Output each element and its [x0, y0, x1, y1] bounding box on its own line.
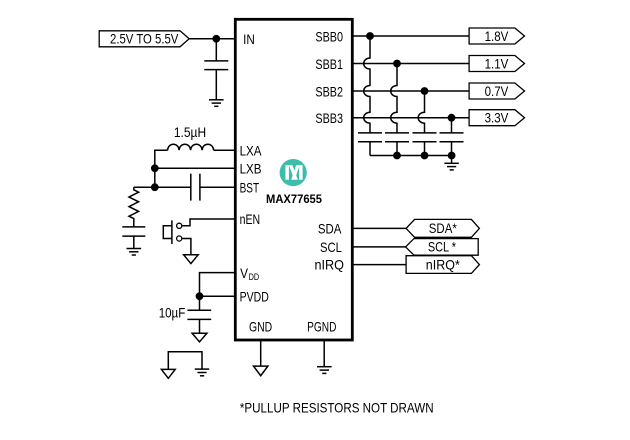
capacitor C_BST: [191, 174, 200, 201]
svg-text:SDA: SDA: [318, 220, 342, 236]
pin label SBB0: [315, 29, 343, 45]
output flag 1.1V: [469, 55, 524, 71]
pin label SBB3: [315, 110, 343, 126]
vertical wire from SBB3 node: [451, 118, 453, 133]
output flag 1.8V: [469, 28, 524, 44]
pin label IN: [243, 31, 255, 47]
output flag 0.7V: [469, 83, 524, 99]
pin label BST: [240, 179, 260, 195]
wire PGND pin to ground: [323, 340, 325, 367]
svg-text:SBB1: SBB1: [315, 56, 343, 72]
wire SDA pin to flag: [352, 227, 406, 229]
IC U1 MAX77655 body: [235, 19, 352, 340]
ground earth symbol at C_IN: [209, 100, 224, 107]
resistor R1: [129, 187, 139, 227]
wire LXA pin to inductor: [214, 149, 236, 151]
ground earth symbol at PGND: [317, 367, 332, 374]
pin label LXB: [240, 161, 262, 177]
svg-text:1.8V: 1.8V: [485, 28, 509, 44]
svg-text:nIRQ*: nIRQ*: [426, 256, 460, 272]
ground earth symbol at rail: [444, 156, 458, 170]
svg-text:0.7V: 0.7V: [485, 83, 509, 99]
output flag nIRQ: [406, 256, 479, 274]
svg-text:*PULLUP RESISTORS NOT DRAWN: *PULLUP RESISTORS NOT DRAWN: [240, 399, 434, 415]
ground rail below SBB capacitors: [370, 155, 452, 157]
svg-text:SBB3: SBB3: [315, 110, 343, 126]
svg-text:V: V: [240, 265, 248, 281]
pin label GND: [249, 318, 272, 334]
svg-text:SCL *: SCL *: [428, 239, 457, 255]
svg-text:2.5V TO 5.5V: 2.5V TO 5.5V: [110, 31, 179, 47]
capacitor C_SBB2: [413, 133, 437, 156]
junction node rail SBB1: [393, 152, 401, 160]
pin label LXA: [240, 142, 262, 158]
svg-text:GND: GND: [249, 318, 272, 334]
svg-text:3.3V: 3.3V: [485, 110, 509, 126]
capacitor C_SBB0: [358, 133, 382, 156]
svg-text:SDA*: SDA*: [429, 220, 457, 236]
pin label PGND: [307, 318, 336, 334]
svg-text:nEN: nEN: [240, 211, 261, 227]
wire BST left segment: [155, 186, 191, 188]
svg-text:BST: BST: [240, 179, 260, 195]
wire SBB3 to 3.3V flag: [352, 117, 469, 119]
label MAX77655: [266, 192, 322, 206]
junction node at LXB: [151, 164, 159, 172]
vertical wire from SBB1 node with hops: [391, 64, 397, 133]
Maxim Integrated logo: [280, 159, 307, 186]
junction node at BST: [151, 183, 159, 191]
wire SBB2 to 0.7V flag: [352, 90, 469, 92]
bidirectional flag SDA: [406, 219, 479, 237]
wire SBB1 to 1.1V flag: [352, 63, 469, 65]
junction node on SBB2: [421, 87, 429, 95]
capacitor C_R: [122, 227, 145, 249]
wire nIRQ pin to flag: [352, 264, 406, 266]
note PULLUP RESISTORS NOT DRAWN: [240, 399, 434, 415]
pushbutton SW1: [163, 220, 181, 244]
svg-text:SBB0: SBB0: [315, 29, 343, 45]
wire input net to IN pin: [187, 38, 235, 40]
ground tie wire between analog and power grounds: [168, 352, 202, 370]
value label 10uF: [159, 305, 186, 321]
svg-text:1.1V: 1.1V: [485, 55, 509, 71]
svg-text:MAX77655: MAX77655: [266, 192, 322, 206]
wire nEN pin: [182, 219, 236, 226]
wire inductor left leg down to LXB/BST node: [155, 150, 168, 187]
capacitor C_VDD 10uF: [187, 296, 211, 333]
wire BST right segment: [200, 186, 235, 188]
pin label VDD: [240, 265, 259, 282]
wire VDD pin: [200, 273, 236, 297]
junction node at IN: [212, 35, 220, 43]
pin label SBB1: [315, 56, 343, 72]
ground chassis symbol at GND: [254, 366, 268, 376]
ground chassis symbol at C_VDD: [192, 333, 207, 342]
wire PVDD pin: [200, 295, 236, 297]
capacitor C_SBB1: [385, 133, 409, 156]
wire LXB: [155, 167, 236, 169]
wire SCL pin to flag: [352, 246, 405, 248]
svg-text:LXA: LXA: [240, 142, 262, 158]
pin label SBB2: [315, 84, 343, 100]
wire GND pin to ground: [260, 340, 262, 366]
junction node on SBB3: [448, 114, 456, 122]
svg-text:SBB2: SBB2: [315, 84, 343, 100]
svg-text:PGND: PGND: [307, 318, 336, 334]
value label 1.5uH: [174, 124, 206, 140]
svg-text:PVDD: PVDD: [240, 288, 269, 304]
wire pushbutton to ground: [182, 239, 191, 255]
svg-text:LXB: LXB: [240, 161, 262, 177]
svg-text:nIRQ: nIRQ: [315, 257, 345, 273]
capacitor C_IN: [204, 39, 228, 100]
input flag SCL: [406, 239, 479, 256]
pin label SCL: [320, 239, 342, 255]
vertical wire from SBB0 node with hops: [364, 36, 370, 133]
svg-text:1.5µH: 1.5µH: [174, 124, 206, 140]
wire BST node to resistor: [134, 186, 155, 188]
ground earth symbol at C_R: [127, 249, 142, 256]
pin label nIRQ: [315, 257, 345, 273]
pin label SDA: [318, 220, 342, 236]
vertical wire from SBB2 node with hop: [418, 91, 424, 133]
pin label PVDD: [240, 288, 269, 304]
junction node at PVDD: [196, 292, 204, 300]
output flag 3.3V: [469, 110, 524, 126]
ground earth symbol at tie right: [195, 369, 209, 376]
pin label nEN: [240, 211, 261, 227]
junction node rail SBB2: [421, 152, 429, 160]
input voltage flag 2.5V TO 5.5V: [99, 31, 189, 47]
ground chassis symbol at pushbutton: [184, 255, 199, 264]
ground chassis symbol at tie left: [161, 369, 175, 378]
junction node on SBB1: [393, 60, 401, 68]
svg-text:DD: DD: [249, 272, 260, 282]
capacitor C_SBB3: [440, 133, 464, 156]
svg-text:IN: IN: [243, 31, 255, 47]
junction node on SBB0: [366, 32, 374, 40]
svg-text:SCL: SCL: [320, 239, 342, 255]
inductor L1 1.5uH: [168, 144, 214, 150]
wire SBB0 to 1.8V flag: [352, 35, 469, 37]
svg-text:10µF: 10µF: [159, 305, 186, 321]
junction node rail SBB3: [448, 152, 456, 160]
